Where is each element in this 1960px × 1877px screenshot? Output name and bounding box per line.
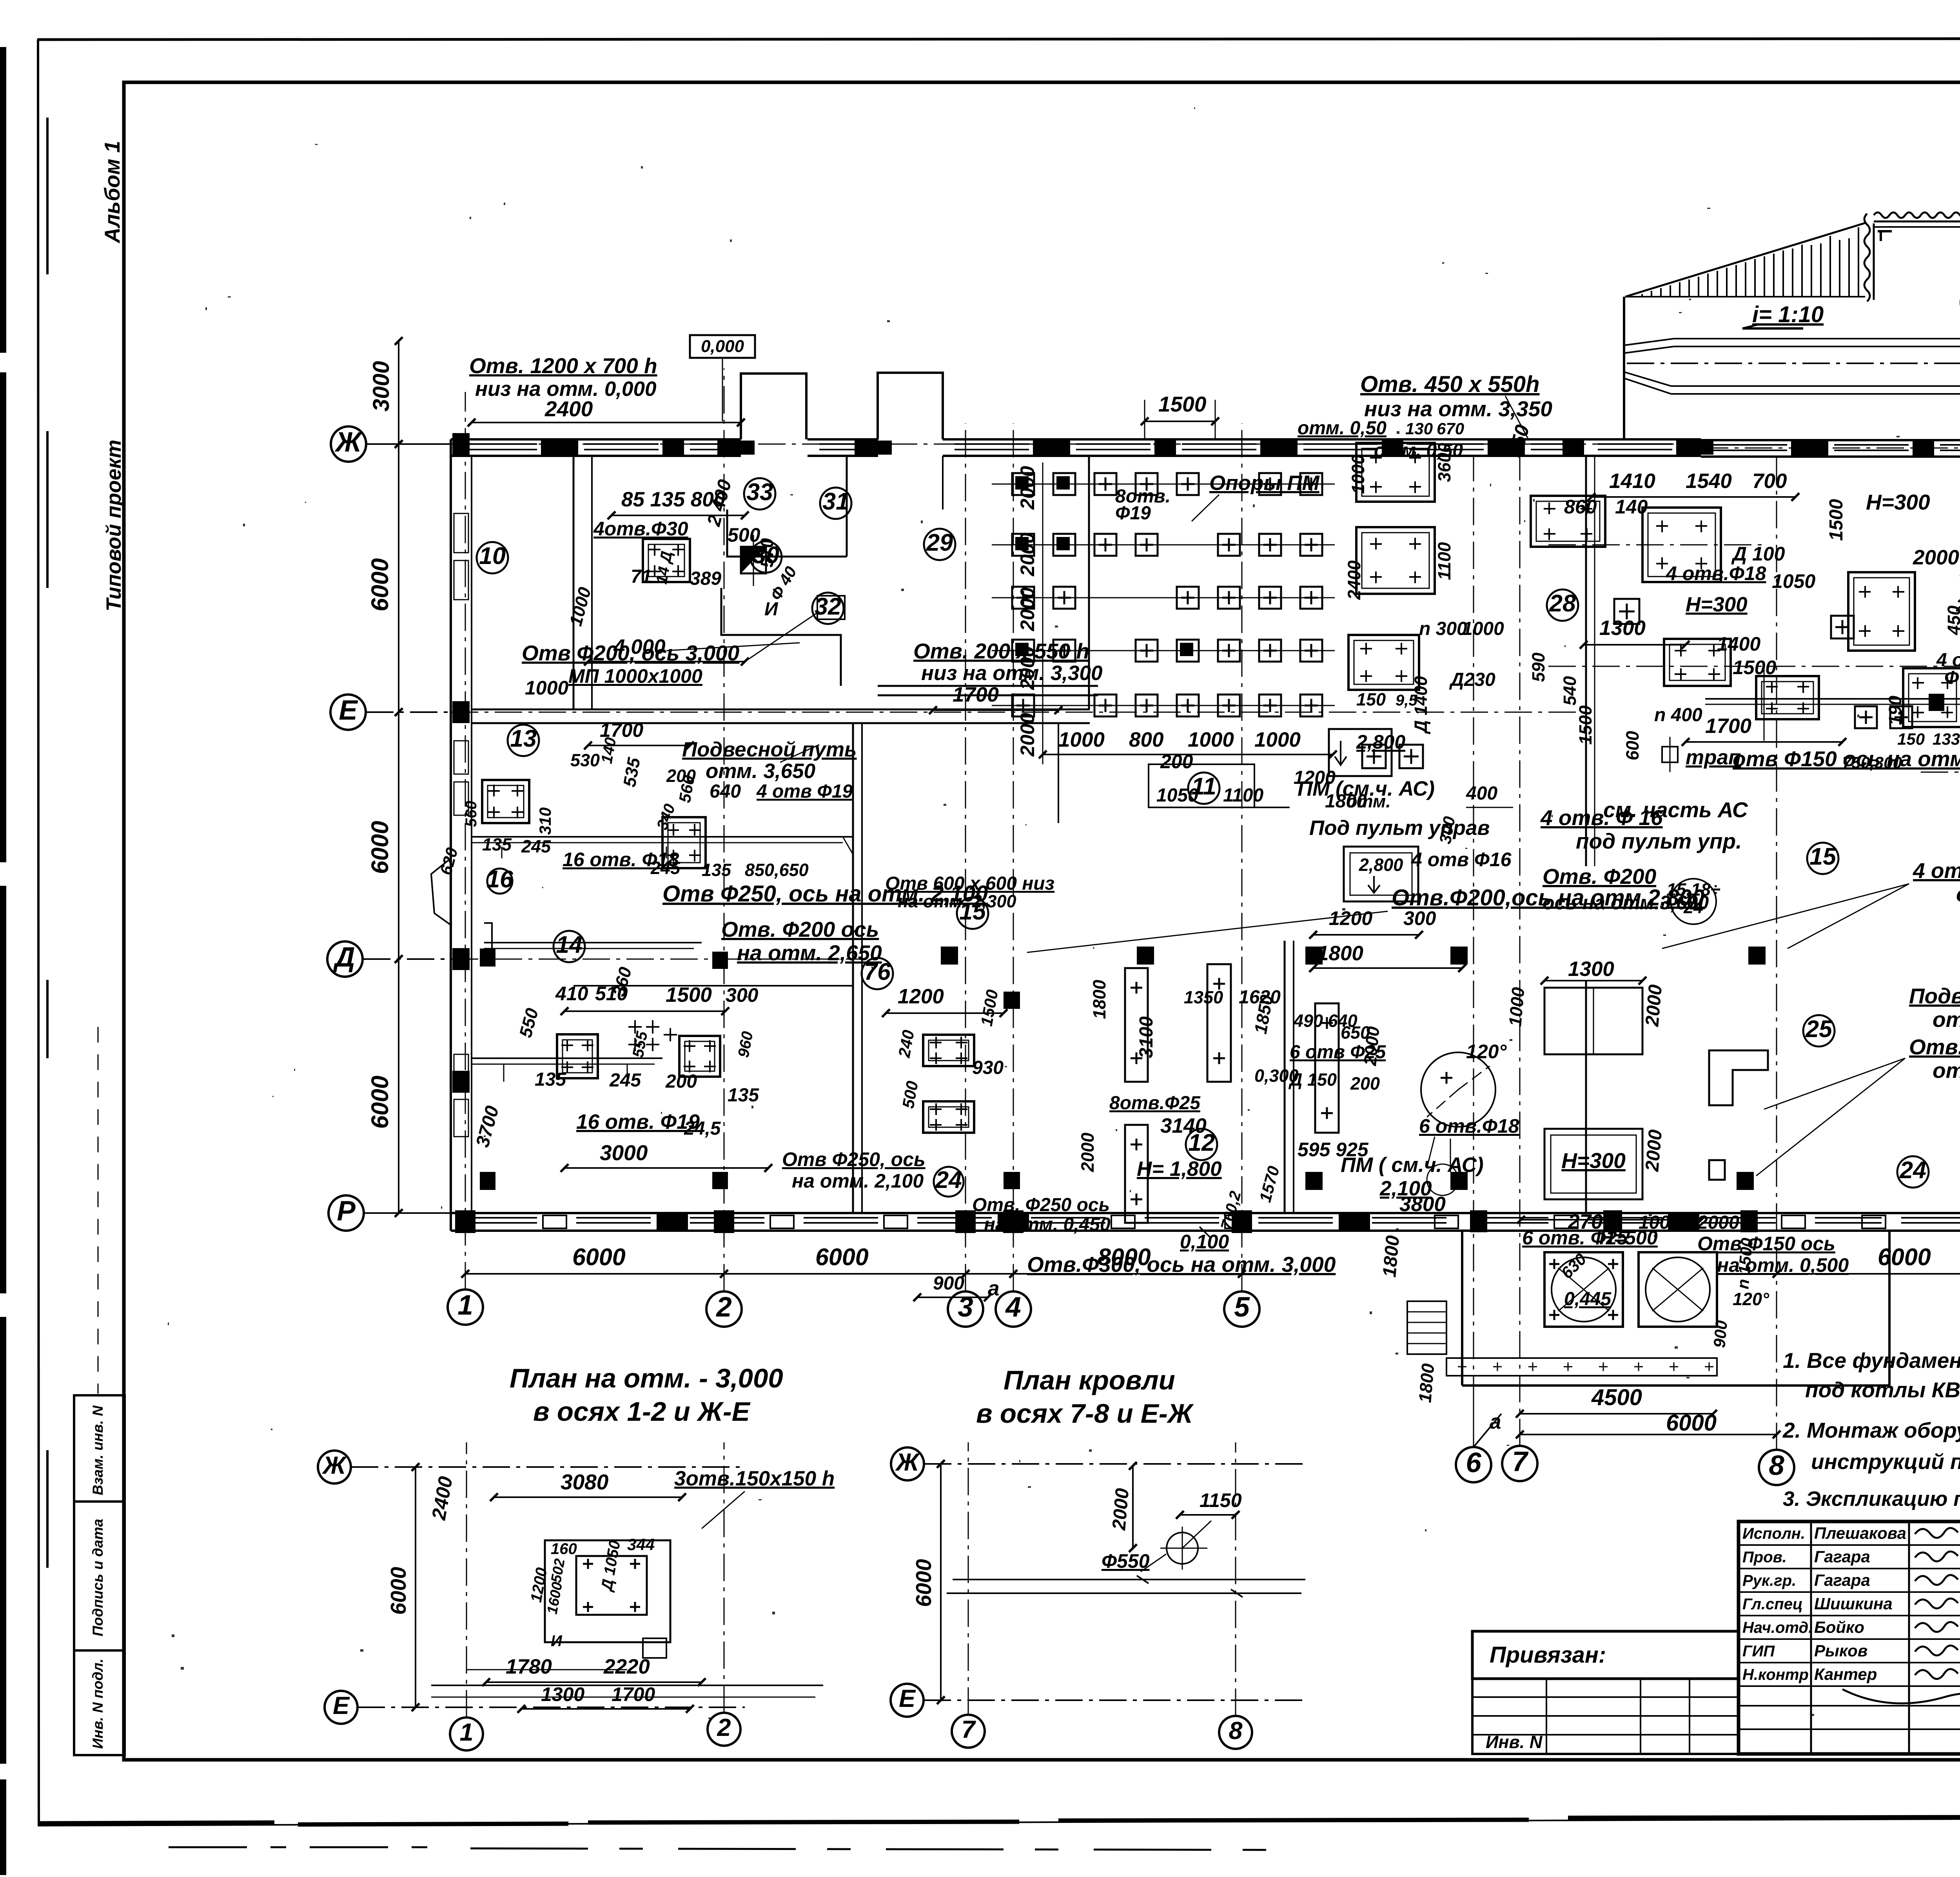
svg-text:МП 1000x1000: МП 1000x1000 <box>568 665 702 687</box>
svg-text:Д 150: Д 150 <box>1288 1070 1337 1090</box>
svg-text:16 отв. Ф19: 16 отв. Ф19 <box>576 1110 700 1133</box>
svg-text:3000: 3000 <box>368 361 394 412</box>
staff signature flourish <box>1842 1689 1960 1703</box>
ramp bar 2 <box>1624 372 1671 386</box>
axis circle 6 <box>1456 1447 1491 1482</box>
svg-text:300: 300 <box>1403 907 1436 929</box>
scan speckles <box>921 520 923 523</box>
porch A top <box>741 374 806 439</box>
svg-text:4 отв Ф16: 4 отв Ф16 <box>1411 849 1512 870</box>
mini1 axis Ж <box>318 1451 351 1483</box>
room circle 28 <box>1547 589 1578 621</box>
title block outer <box>1739 1522 1960 1754</box>
svg-text:150: 150 <box>1897 730 1925 748</box>
margin tick lines <box>98 1027 99 1394</box>
svg-text:1500: 1500 <box>1575 705 1595 745</box>
svg-text:900: 900 <box>933 1273 964 1294</box>
svg-text:Д 100: Д 100 <box>1731 543 1785 565</box>
circle 15-18-24 <box>1671 879 1716 924</box>
ramp centerline <box>1627 363 1960 364</box>
svg-text:i= 1:10: i= 1:10 <box>1752 302 1824 327</box>
axis circle 4 <box>996 1291 1031 1327</box>
svg-text:1800: 1800 <box>1415 1363 1438 1404</box>
svg-text:3: 3 <box>958 1292 973 1323</box>
boiler pad 2 <box>1639 1252 1717 1327</box>
svg-text:570: 570 <box>757 538 777 568</box>
svg-text:6000: 6000 <box>1878 1244 1931 1270</box>
svg-text:ГИП: ГИП <box>1742 1643 1775 1660</box>
svg-text:71: 71 <box>631 566 652 587</box>
svg-text:640: 640 <box>710 781 741 802</box>
svg-text:24: 24 <box>1683 897 1703 917</box>
room circle 31 <box>820 488 851 519</box>
interior wall x2780 room29 <box>1088 456 1090 709</box>
room15 long rect pads <box>1207 964 1231 1082</box>
annex dimension 4500 6000 <box>1520 1413 1713 1415</box>
room circle 11 <box>1188 773 1220 804</box>
mini2 dim 6000 <box>940 1464 942 1700</box>
svg-text:2,800: 2,800 <box>1359 855 1403 875</box>
svg-text:Типовой проект: Типовой проект <box>102 440 125 611</box>
svg-text:2400: 2400 <box>544 397 593 421</box>
svg-text:Инв. N подл.: Инв. N подл. <box>90 1659 106 1749</box>
svg-text:Ф 25: Ф 25 <box>1944 667 1960 688</box>
svg-text:33: 33 <box>746 479 773 505</box>
left wall notch near Д <box>431 858 451 925</box>
svg-text:под пульт упр.: под пульт упр. <box>1576 829 1742 853</box>
svg-text:6000: 6000 <box>815 1244 869 1270</box>
svg-text:3140: 3140 <box>1160 1114 1207 1137</box>
stamp box Взам инв N <box>74 1395 125 1502</box>
svg-text:4: 4 <box>1005 1292 1021 1323</box>
scan edge strip left <box>0 47 6 353</box>
black piers lower middle <box>1305 947 1323 965</box>
svg-text:2000: 2000 <box>1913 546 1959 569</box>
svg-text:Д: Д <box>332 942 355 973</box>
room circle 29 <box>924 529 955 560</box>
svg-text:700: 700 <box>1752 470 1787 493</box>
svg-text:2000: 2000 <box>1642 984 1666 1028</box>
svg-text:Ж: Ж <box>334 427 363 458</box>
boiler pad 1 <box>1544 1252 1623 1327</box>
svg-text:Е: Е <box>339 695 358 726</box>
svg-text:n 300: n 300 <box>1419 618 1467 639</box>
svg-text:0,000: 0,000 <box>701 337 744 356</box>
mini2 roof lines <box>953 1579 1305 1580</box>
svg-text:160: 160 <box>551 1540 577 1558</box>
hall top interior line <box>942 456 944 510</box>
svg-text:28: 28 <box>1549 590 1576 617</box>
svg-text:1. Все фундаменты на отметк: 1. Все фундаменты на отметке 0,000, кром… <box>1783 1348 1960 1373</box>
svg-text:1000: 1000 <box>525 677 568 699</box>
svg-text:2000: 2000 <box>1078 1133 1098 1172</box>
svg-text:Отв Ф200, ось 3,000: Отв Ф200, ось 3,000 <box>522 641 740 665</box>
axis circle 1 <box>448 1289 483 1325</box>
roof slope line <box>1625 223 1866 297</box>
svg-text:8отв.Ф25: 8отв.Ф25 <box>1109 1093 1201 1114</box>
axis circle 8 <box>1759 1450 1794 1485</box>
svg-text:560: 560 <box>463 801 480 827</box>
room circle 24 <box>934 1167 964 1197</box>
svg-text:2000: 2000 <box>1109 1487 1133 1531</box>
mini2 drain <box>1167 1532 1198 1564</box>
porch B top <box>878 373 943 439</box>
rotary machine circle <box>1421 1052 1495 1127</box>
svg-text:Отв. Ф200: Отв. Ф200 <box>1543 864 1657 889</box>
svg-text:И: И <box>551 1632 563 1650</box>
svg-text:120°: 120° <box>1733 1289 1769 1309</box>
svg-text:Кантер: Кантер <box>1814 1665 1877 1683</box>
svg-text:1700: 1700 <box>953 683 999 706</box>
roof hatch baseline <box>1625 296 1865 297</box>
svg-text:ПМ (см.ч. АС): ПМ (см.ч. АС) <box>1298 777 1435 800</box>
top wall band Ж middle <box>808 438 878 441</box>
svg-text:10: 10 <box>479 542 506 569</box>
svg-text:1350: 1350 <box>1184 987 1223 1007</box>
svg-text:Отв. Ф 200 ось на: Отв. Ф 200 ось на <box>1909 1035 1960 1059</box>
svg-text:Гагара: Гагара <box>1814 1547 1870 1566</box>
svg-text:Бойко: Бойко <box>1814 1618 1864 1636</box>
svg-text:1500: 1500 <box>666 983 712 1007</box>
svg-text:на отм. 2,650: на отм. 2,650 <box>737 941 882 965</box>
level box 2800 down <box>1344 847 1418 901</box>
wall between hall and 26 <box>1585 456 1587 866</box>
svg-text:1000: 1000 <box>1254 728 1301 751</box>
svg-text:930: 930 <box>972 1057 1004 1078</box>
roof hatch strokes <box>1632 296 1633 297</box>
axis circle Ж <box>331 426 366 462</box>
svg-text:1780: 1780 <box>506 1655 552 1678</box>
bottom dimension line axes 8-10 <box>1777 1273 1960 1275</box>
room circle 16 <box>487 869 512 894</box>
svg-text:низ на отм. 3,300: низ на отм. 3,300 <box>921 662 1102 685</box>
leader lines right mid <box>1788 884 1909 948</box>
staff table verticals <box>1810 1522 1812 1754</box>
svg-text:200: 200 <box>1350 1074 1380 1094</box>
svg-text:в осях 1-2 и Ж-Е: в осях 1-2 и Ж-Е <box>533 1396 751 1427</box>
svg-text:1000: 1000 <box>1462 618 1504 639</box>
svg-text:в осях 7-8 и Е-Ж: в осях 7-8 и Е-Ж <box>976 1398 1194 1429</box>
axis circle 7 <box>1502 1446 1537 1481</box>
privjazan grid <box>1472 1679 1739 1754</box>
svg-text:25: 25 <box>1805 1016 1833 1042</box>
svg-text:1400: 1400 <box>1717 633 1760 655</box>
staff table rows <box>1739 1544 1960 1546</box>
svg-text:190: 190 <box>1885 696 1905 725</box>
svg-text:Отв. 450 x 550h: Отв. 450 x 550h <box>1360 372 1539 397</box>
svg-text:Отв.Ф300, ось на отм. 3,000: Отв.Ф300, ось на отм. 3,000 <box>1027 1252 1336 1277</box>
svg-text:Отв. Ф250 ось: Отв. Ф250 ось <box>972 1195 1110 1215</box>
svg-text:6000: 6000 <box>386 1567 410 1615</box>
svg-text:15: 15 <box>1809 843 1837 870</box>
svg-text:2,800: 2,800 <box>1356 731 1405 753</box>
svg-text:Н= 1,800: Н= 1,800 <box>1137 1157 1222 1181</box>
bottom dimension line axes 1-5 <box>465 1273 724 1275</box>
interior wall x3290 <box>1284 941 1286 1213</box>
room circle 30 <box>750 541 782 573</box>
svg-text:2220: 2220 <box>603 1655 650 1678</box>
dashdot horiz через pads <box>1548 544 1764 546</box>
svg-text:отм. 0,50: отм. 0,50 <box>1298 418 1387 439</box>
svg-text:1050: 1050 <box>1772 570 1815 592</box>
svg-text:отм. 3,300: отм. 3,300 <box>1933 1058 1960 1083</box>
annex walls boiler room <box>1461 1231 1463 1386</box>
svg-text:590: 590 <box>1528 653 1548 682</box>
svg-text:Е: Е <box>333 1692 350 1719</box>
annex stair hatch <box>1407 1301 1446 1354</box>
svg-text:410: 410 <box>555 983 588 1005</box>
upper section left wall <box>1623 297 1625 439</box>
axis circle Р <box>328 1195 364 1231</box>
room10 black wedge detail <box>741 547 766 573</box>
mini1 dim 6000 left <box>415 1467 416 1707</box>
svg-text:Ж: Ж <box>322 1452 347 1479</box>
black piers room14 <box>480 948 495 967</box>
svg-text:a: a <box>1490 1410 1501 1433</box>
svg-text:2000: 2000 <box>1642 1129 1666 1173</box>
svg-text:Гл.спец: Гл.спец <box>1742 1596 1803 1613</box>
mini1 axis 2 <box>708 1713 740 1746</box>
top wall band Ж left part <box>451 438 741 441</box>
svg-text:1100: 1100 <box>1434 542 1454 580</box>
svg-text:1100: 1100 <box>1223 785 1264 806</box>
svg-text:Отв Ф150 ось: Отв Ф150 ось <box>1697 1233 1835 1255</box>
svg-text:1300: 1300 <box>1568 958 1614 981</box>
svg-text:1800: 1800 <box>1379 1235 1403 1278</box>
suspension rail lines y1790 <box>1705 698 1960 700</box>
svg-text:24: 24 <box>935 1166 962 1193</box>
mini2 axis Е <box>891 1684 924 1717</box>
pad H300 room25 <box>1544 1129 1642 1199</box>
room circle 15 <box>957 898 988 929</box>
svg-text:1050: 1050 <box>1156 785 1198 806</box>
svg-text:6: 6 <box>1466 1447 1481 1478</box>
svg-text:на отм. 2,300: на отм. 2,300 <box>898 891 1016 911</box>
svg-text:6000: 6000 <box>367 821 393 874</box>
outer border top <box>37 38 1960 40</box>
black piers annex top <box>1470 1210 1487 1232</box>
svg-text:2000: 2000 <box>1016 466 1038 510</box>
room circle 10 <box>477 542 508 573</box>
svg-text:под котлы КВМ-4,6А.: под котлы КВМ-4,6А. <box>1805 1378 1960 1402</box>
svg-text:Гагара: Гагара <box>1814 1571 1870 1589</box>
room circle 33 <box>744 478 775 510</box>
privjazan box <box>1472 1631 1739 1679</box>
svg-text:Подпись и дата: Подпись и дата <box>90 1519 106 1636</box>
svg-text:Привязан:: Привязан: <box>1490 1642 1606 1668</box>
room circle 15 <box>1807 843 1838 874</box>
svg-text:отм. 3,650: отм. 3,650 <box>706 760 815 783</box>
svg-text:Пров.: Пров. <box>1742 1549 1787 1566</box>
svg-text:900: 900 <box>1710 1320 1731 1349</box>
svg-text:Нач.отд.: Нач.отд. <box>1742 1619 1813 1636</box>
hall partition x2700-2920 top <box>1058 723 1059 823</box>
svg-text:Опоры ПМ: Опоры ПМ <box>1209 472 1320 495</box>
svg-text:6000: 6000 <box>911 1559 936 1607</box>
mini1 axis Е <box>325 1691 358 1724</box>
central corridor verticals near пульт <box>1152 807 1290 808</box>
svg-text:4 отв Ф19: 4 отв Ф19 <box>756 781 853 802</box>
bottom wall band Р <box>451 1212 1462 1214</box>
axis circle Е <box>330 695 366 730</box>
svg-text:Отв Ф250, ось: Отв Ф250, ось <box>782 1148 926 1170</box>
vertical slot pads middle <box>1125 968 1148 1082</box>
svg-text:29: 29 <box>926 529 953 556</box>
outer border bottom broken <box>39 1823 274 1823</box>
svg-text:860: 860 <box>1564 496 1597 518</box>
interior walls rooms 30-33 <box>727 510 847 557</box>
level box 0,000 <box>690 335 755 358</box>
svg-text:135: 135 <box>535 1069 566 1090</box>
axis circle 3 <box>948 1291 983 1327</box>
svg-text:300: 300 <box>726 984 759 1006</box>
svg-text:1500: 1500 <box>1158 392 1207 416</box>
svg-text:4 отв.Ф18: 4 отв.Ф18 <box>1666 562 1766 584</box>
svg-text:отм. 3,050: отм. 3,050 <box>1933 1007 1960 1032</box>
svg-text:400: 400 <box>1466 783 1497 804</box>
svg-text:1800: 1800 <box>1089 980 1109 1019</box>
svg-text:3800: 3800 <box>1399 1193 1446 1216</box>
room10 small pads <box>643 539 690 582</box>
axis circle 2 <box>706 1291 742 1327</box>
svg-text:150: 150 <box>1356 689 1386 709</box>
svg-text:Шишкина: Шишкина <box>1814 1594 1893 1613</box>
mini1 bottom triple lines <box>431 1685 823 1686</box>
svg-text:5: 5 <box>1234 1292 1250 1323</box>
svg-text:3600: 3600 <box>1434 443 1454 482</box>
svg-text:Е: Е <box>899 1685 916 1712</box>
svg-text:Р: Р <box>337 1196 356 1227</box>
trap middle <box>1662 747 1678 762</box>
svg-text:200: 200 <box>665 1071 697 1092</box>
svg-text:Ф19: Ф19 <box>1115 503 1151 524</box>
pad 1300 room25 <box>1544 988 1642 1054</box>
svg-text:И: И <box>764 599 779 620</box>
svg-text:530: 530 <box>570 750 600 770</box>
top wall band right section <box>1586 438 1701 441</box>
svg-text:850,650: 850,650 <box>745 860 809 880</box>
svg-text:500: 500 <box>728 524 760 546</box>
svg-text:15,18÷: 15,18÷ <box>1666 880 1720 900</box>
svg-text:2. Монтаж оборудования произ: 2. Монтаж оборудования производить согла… <box>1782 1418 1960 1442</box>
svg-text:Под пульт управ: Под пульт управ <box>1309 816 1490 840</box>
svg-text:24,5: 24,5 <box>684 1118 721 1139</box>
svg-text:1: 1 <box>457 1290 473 1321</box>
svg-text:1000: 1000 <box>1639 1212 1681 1233</box>
svg-text:План на отм. - 3,000: План на отм. - 3,000 <box>510 1363 783 1393</box>
svg-text:1500: 1500 <box>1826 499 1847 541</box>
svg-text:0,445: 0,445 <box>1564 1289 1612 1309</box>
svg-text:Д230: Д230 <box>1449 669 1495 690</box>
svg-text:245: 245 <box>650 858 681 878</box>
corrugated roof top edge <box>1874 212 1960 218</box>
svg-text:Плешакова: Плешакова <box>1814 1524 1906 1542</box>
svg-text:6 отв.Ф18: 6 отв.Ф18 <box>1419 1115 1519 1137</box>
axis Д dashdot across <box>451 959 862 960</box>
svg-text:120°: 120° <box>1466 1041 1507 1063</box>
interior wall x2199 below E <box>852 723 854 1213</box>
dim 1500 top <box>1145 421 1215 422</box>
svg-text:1000: 1000 <box>1188 728 1234 751</box>
svg-text:24: 24 <box>1899 1157 1926 1183</box>
svg-text:0,100: 0,100 <box>1180 1231 1229 1253</box>
axis 6 7 8 vertical dashdot <box>1473 457 1474 1447</box>
axis Ж dashdot across <box>451 444 1701 445</box>
ramp bar 1 <box>1624 339 1674 345</box>
svg-text:245: 245 <box>521 836 551 856</box>
svg-text:800: 800 <box>1129 728 1163 751</box>
mini2 axis Ж <box>891 1447 924 1480</box>
svg-text:Отв. 200 x 550 h: Отв. 200 x 550 h <box>913 639 1089 663</box>
svg-text:135: 135 <box>702 860 731 880</box>
svg-text:3080: 3080 <box>561 1470 609 1494</box>
room circle 13 <box>508 725 539 756</box>
corrugated vertical edge <box>1864 214 1870 301</box>
svg-text:отм. 2,800: отм. 2,800 <box>1956 882 1960 906</box>
svg-text:отв Ф150 ось на отм. 2,300: отв Ф150 ось на отм. 2,300 <box>1733 747 1960 771</box>
svg-text:Подвесной путь: Подвесной путь <box>1909 984 1960 1008</box>
svg-text:2000: 2000 <box>1697 1212 1739 1233</box>
svg-text:низ на отм. 3,350: низ на отм. 3,350 <box>1364 397 1552 421</box>
room circle 14 <box>554 931 585 962</box>
svg-text:8: 8 <box>1769 1450 1784 1481</box>
svg-text:инструкций по монтажу и эк: инструкций по монтажу и эксплуатации. <box>1811 1449 1960 1474</box>
svg-text:6000: 6000 <box>572 1244 626 1270</box>
svg-text:2: 2 <box>717 1714 731 1741</box>
axis circle 5 <box>1224 1291 1259 1327</box>
svg-text:1200: 1200 <box>1329 907 1372 929</box>
svg-text:450: 450 <box>1944 606 1960 635</box>
room 29 bottom wall <box>878 685 1098 687</box>
svg-text:6000: 6000 <box>367 1075 393 1129</box>
svg-text:389: 389 <box>690 568 721 589</box>
svg-text:Н=300: Н=300 <box>1866 490 1930 514</box>
outer border left <box>38 40 39 1826</box>
mini1 axis 1 <box>450 1717 483 1750</box>
svg-text:1410: 1410 <box>1609 470 1655 493</box>
axis dim column 6000 labels <box>398 444 399 712</box>
svg-text:3отв.150x150 h: 3отв.150x150 h <box>674 1467 835 1490</box>
stamp box Инв N подл <box>74 1650 125 1755</box>
bottom wall piers <box>455 1210 475 1233</box>
axis circle Д <box>327 941 363 977</box>
svg-text:4 отв. Ф200 ось на: 4 отв. Ф200 ось на <box>1913 858 1960 883</box>
svg-text:3100: 3100 <box>1136 1016 1157 1058</box>
mini2 axis 7 <box>952 1715 985 1748</box>
svg-text:1000: 1000 <box>1058 728 1105 751</box>
svg-text:4500: 4500 <box>1591 1385 1642 1410</box>
svg-text:1500: 1500 <box>1733 656 1776 678</box>
room circle 25 <box>1803 1015 1835 1046</box>
foundation pads 3500-4000 upper <box>1356 443 1435 502</box>
svg-text:7: 7 <box>1512 1446 1529 1477</box>
mini2 axis 8 <box>1219 1716 1252 1749</box>
svg-text:Рыков: Рыков <box>1814 1641 1867 1660</box>
svg-text:на отм. 0,450: на отм. 0,450 <box>984 1214 1111 1235</box>
svg-text:Взам. инв. N: Взам. инв. N <box>90 1405 106 1495</box>
room circle 76 <box>862 958 893 989</box>
svg-text:1300: 1300 <box>1599 617 1646 640</box>
svg-text:Н=300: Н=300 <box>1561 1148 1626 1173</box>
svg-text:Отв. Ф200 ось: Отв. Ф200 ось <box>721 917 879 941</box>
svg-text:Ж: Ж <box>895 1449 920 1476</box>
room circle 12 <box>1186 1129 1217 1160</box>
svg-text:1000: 1000 <box>1505 987 1528 1027</box>
svg-text:6000: 6000 <box>1666 1410 1717 1436</box>
svg-text:7: 7 <box>961 1716 976 1743</box>
svg-text:1: 1 <box>459 1719 473 1746</box>
svg-text:Инв. N: Инв. N <box>1486 1732 1543 1752</box>
